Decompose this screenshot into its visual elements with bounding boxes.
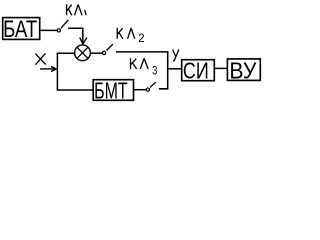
label KL1: subscript 1: [85, 10, 87, 15]
svg-text:БАТ: БАТ: [3, 16, 37, 43]
block BMT box: [93, 80, 133, 101]
wire KL2 fixed contact to right rail and down to KL3 contact: [116, 52, 168, 89]
switch KL1 blade: [61, 20, 68, 28]
svg-text:СИ: СИ: [183, 59, 209, 85]
label KL1: K strokes: [67, 4, 72, 15]
wire branch into SI: [168, 68, 182, 70]
label KL2: L (lambda) strokes: [128, 28, 135, 39]
arrowhead into mixer top: [80, 38, 87, 45]
label KL2: K strokes: [117, 28, 123, 39]
switch KL1 pivot circle: [57, 29, 60, 32]
wire KL1 to mixer (stub, corner, down shaft): [68, 28, 83, 43]
switch KL2 blade: [106, 44, 113, 50]
svg-text:БМТ: БМТ: [94, 79, 128, 105]
mixer (multiplier) circle U1: [75, 45, 91, 61]
node x label glyph: [35, 53, 45, 64]
block VU box: [227, 59, 260, 81]
node x input arrow shaft: [40, 68, 55, 70]
switch KL3 blade: [150, 82, 156, 87]
svg-text:3: 3: [152, 65, 157, 78]
wire mixer right to KL2: [91, 52, 102, 54]
switch KL2 pivot circle: [103, 51, 106, 54]
label KL3: L (lambda) strokes: [140, 58, 148, 69]
wire mixer left / down to BMT: [57, 53, 93, 90]
mixer X diagonals: [77, 47, 88, 58]
svg-text:2: 2: [138, 32, 144, 45]
wire BMT to KL3: [134, 89, 146, 91]
block SI box: [182, 60, 215, 81]
label KL1: L (lambda) strokes: [75, 5, 83, 16]
node y label glyph: [173, 49, 179, 61]
svg-text:ВУ: ВУ: [229, 57, 257, 83]
node x input arrowhead: [51, 66, 56, 71]
switch KL3 pivot circle: [146, 88, 149, 91]
wire BAT to KL1: [40, 29, 57, 31]
label KL3: K strokes: [131, 58, 137, 69]
wire SI to VU: [214, 67, 227, 69]
block BAT box: [3, 18, 40, 40]
